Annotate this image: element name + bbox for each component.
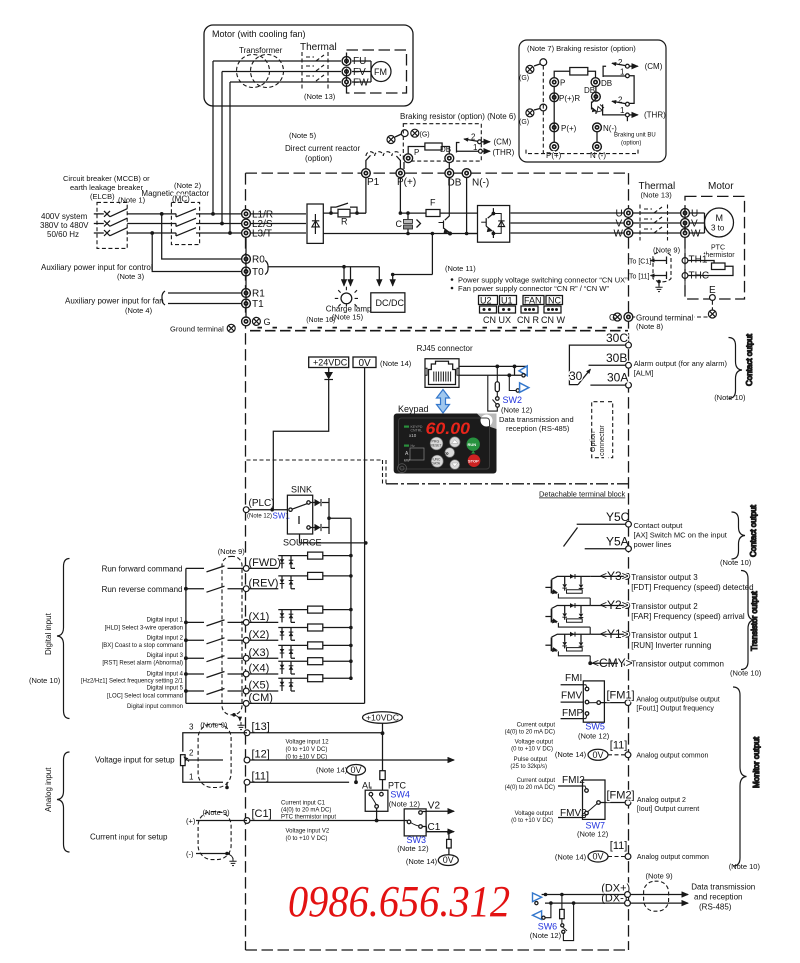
- svg-text:Analog output 2: Analog output 2: [637, 797, 686, 804]
- svg-text:CNTRL: CNTRL: [411, 429, 423, 433]
- svg-text:FMI2: FMI2: [562, 775, 585, 786]
- svg-text:[FDT] Frequency (speed) detect: [FDT] Frequency (speed) detected: [631, 583, 753, 592]
- svg-text:50/60 Hz: 50/60 Hz: [47, 230, 79, 239]
- svg-text:(PLC): (PLC): [249, 498, 275, 509]
- svg-text:(Note 13): (Note 13): [304, 92, 336, 101]
- svg-text:3: 3: [189, 723, 194, 732]
- svg-text:(Note 9): (Note 9): [218, 547, 246, 556]
- svg-text:(X4): (X4): [249, 663, 270, 675]
- svg-text:[AX] Switch MC on the input: [AX] Switch MC on the input: [634, 531, 728, 540]
- svg-text:P: P: [560, 79, 565, 88]
- svg-text:2: 2: [618, 96, 623, 105]
- svg-text:FMI: FMI: [565, 673, 582, 684]
- svg-text:Run forward command: Run forward command: [102, 565, 183, 574]
- svg-text:(Note 14): (Note 14): [406, 857, 438, 866]
- svg-text:reception (RS-485): reception (RS-485): [506, 424, 570, 433]
- svg-text:(RS-485): (RS-485): [699, 903, 732, 912]
- svg-text:Digital input 5: Digital input 5: [147, 686, 184, 692]
- svg-text:(Note 12): (Note 12): [530, 931, 562, 940]
- svg-text:Voltage input V2: Voltage input V2: [286, 829, 330, 835]
- svg-text:[12]: [12]: [252, 749, 270, 761]
- svg-text:SW5: SW5: [585, 722, 605, 732]
- svg-text:Digital input 4: Digital input 4: [147, 672, 184, 678]
- svg-text:T1: T1: [252, 299, 264, 310]
- svg-text:Current output: Current output: [517, 778, 556, 784]
- svg-text:Digital input: Digital input: [44, 612, 53, 655]
- svg-text:(ELCB): (ELCB): [90, 192, 115, 201]
- svg-text:Data transmission: Data transmission: [691, 883, 755, 892]
- svg-text:30B: 30B: [606, 351, 627, 365]
- svg-text:connector: connector: [599, 425, 606, 456]
- svg-text:(+): (+): [186, 817, 196, 826]
- svg-text:P(+)R: P(+)R: [559, 94, 580, 103]
- svg-text:R1: R1: [252, 289, 265, 300]
- svg-text:P1: P1: [367, 177, 380, 188]
- svg-text:PTC: PTC: [711, 245, 725, 252]
- svg-text:DB: DB: [601, 79, 612, 88]
- svg-text:R: R: [341, 217, 348, 227]
- svg-text:[RUN] Inverter running: [RUN] Inverter running: [631, 641, 711, 650]
- svg-text:[13]: [13]: [252, 721, 270, 733]
- svg-text:FM: FM: [374, 67, 387, 77]
- svg-text:RUN: RUN: [468, 442, 477, 447]
- svg-text:Voltage output: Voltage output: [515, 811, 554, 817]
- svg-text:(0 to +10 V DC): (0 to +10 V DC): [286, 747, 328, 753]
- svg-text:(REV): (REV): [249, 577, 279, 589]
- svg-text:DATA: DATA: [432, 462, 441, 466]
- svg-text:M: M: [716, 213, 724, 223]
- svg-text:(-): (-): [186, 850, 194, 859]
- svg-text:(G): (G): [519, 75, 529, 82]
- svg-text:Auxiliary power input for cont: Auxiliary power input for control: [41, 263, 153, 272]
- svg-text:2: 2: [471, 133, 476, 142]
- svg-text:0986.656.312: 0986.656.312: [288, 877, 510, 926]
- svg-text:Thermal: Thermal: [300, 42, 337, 53]
- svg-text:0V: 0V: [593, 852, 604, 862]
- svg-text:(Note 2): (Note 2): [174, 181, 202, 190]
- svg-text:Transistor output 3: Transistor output 3: [631, 573, 698, 582]
- svg-text:thermistor: thermistor: [704, 252, 736, 259]
- svg-text:Current output: Current output: [517, 723, 556, 729]
- svg-text:Detachable terminal block: Detachable terminal block: [539, 490, 626, 499]
- svg-text:1: 1: [473, 143, 478, 152]
- svg-text:30A: 30A: [607, 371, 628, 385]
- svg-text:(X3): (X3): [249, 647, 270, 659]
- svg-text:0V: 0V: [351, 765, 362, 775]
- svg-text:To [C1]: To [C1]: [629, 259, 651, 266]
- svg-text:(Note 14): (Note 14): [555, 750, 587, 759]
- svg-text:Analog output common: Analog output common: [637, 854, 709, 861]
- svg-text:(Note 15): (Note 15): [332, 313, 364, 322]
- svg-text:(X5): (X5): [249, 680, 270, 692]
- svg-text:Current input C1: Current input C1: [281, 801, 326, 807]
- svg-text:[HLD] Select 3-wire operation: [HLD] Select 3-wire operation: [105, 625, 183, 631]
- svg-text:U1: U1: [501, 296, 513, 306]
- svg-text:Circuit breaker (MCCB) or: Circuit breaker (MCCB) or: [63, 174, 150, 183]
- svg-text:Y5C: Y5C: [606, 510, 630, 524]
- svg-text:380V to 480V: 380V to 480V: [40, 221, 89, 230]
- svg-text:(Note 10): (Note 10): [729, 862, 761, 871]
- svg-text:W: W: [614, 229, 624, 240]
- svg-text:kW: kW: [404, 458, 410, 463]
- svg-text:earth leakage breaker: earth leakage breaker: [70, 183, 143, 192]
- svg-text:(Note 12): (Note 12): [397, 844, 429, 853]
- svg-text:DC/DC: DC/DC: [376, 298, 405, 308]
- svg-text:+10VDC: +10VDC: [366, 713, 399, 722]
- svg-text:Data transmission and: Data transmission and: [499, 415, 574, 424]
- svg-text:(THR): (THR): [644, 111, 666, 120]
- svg-text:Transistor output 2: Transistor output 2: [631, 602, 698, 611]
- svg-text:[C1]: [C1]: [252, 808, 272, 820]
- svg-text:(4(0) to 20 mA DC): (4(0) to 20 mA DC): [281, 808, 331, 814]
- svg-text:(X2): (X2): [249, 629, 270, 641]
- svg-text:(Note 12): (Note 12): [501, 406, 533, 415]
- svg-text:(Note 7) Braking resistor (op: (Note 7) Braking resistor (option): [527, 44, 636, 53]
- svg-text:Transistor output common: Transistor output common: [631, 660, 724, 669]
- svg-text:V2: V2: [428, 801, 441, 812]
- svg-text:Voltage input 12: Voltage input 12: [286, 740, 330, 746]
- svg-text:P: P: [414, 148, 419, 157]
- svg-text:Motor (with cooling fan): Motor (with cooling fan): [212, 29, 306, 39]
- svg-text:Pulse output: Pulse output: [514, 757, 548, 763]
- svg-text:[11]: [11]: [610, 740, 628, 752]
- svg-text:Transistor output 1: Transistor output 1: [631, 631, 698, 640]
- svg-text:CN R: CN R: [517, 315, 539, 325]
- svg-text:(Note 10): (Note 10): [720, 558, 752, 567]
- svg-text:Transformer: Transformer: [239, 46, 283, 55]
- svg-text:SW4: SW4: [390, 790, 410, 800]
- svg-text:(Note 9): (Note 9): [200, 721, 228, 730]
- svg-text:(Note 13): (Note 13): [641, 191, 673, 200]
- svg-text:(Note 8): (Note 8): [636, 322, 664, 331]
- svg-text:Contact output: Contact output: [745, 333, 754, 386]
- svg-text:G: G: [264, 317, 271, 327]
- svg-text:[RST] Reset alarm (Abnormal): [RST] Reset alarm (Abnormal): [102, 661, 183, 667]
- svg-text:Transistor output: Transistor output: [750, 590, 759, 651]
- svg-text:Analog input: Analog input: [44, 767, 53, 812]
- svg-text:Digital input 3: Digital input 3: [147, 653, 184, 659]
- svg-text:[FM2]: [FM2]: [607, 790, 635, 802]
- svg-text:Ground terminal: Ground terminal: [636, 313, 694, 322]
- svg-text:60.00: 60.00: [426, 420, 471, 438]
- svg-text:Motor: Motor: [708, 181, 734, 192]
- svg-text:(THR): (THR): [493, 148, 515, 157]
- svg-text:Current input for setup: Current input for setup: [90, 833, 168, 842]
- svg-text:0V: 0V: [443, 855, 454, 865]
- svg-text:FW: FW: [353, 78, 369, 89]
- svg-text:AI: AI: [362, 781, 371, 791]
- svg-text:and reception: and reception: [694, 893, 742, 902]
- svg-text:Y5A: Y5A: [606, 535, 629, 549]
- svg-text:(Note 12): (Note 12): [578, 732, 610, 741]
- svg-text:0V: 0V: [359, 358, 372, 369]
- svg-text:1: 1: [620, 106, 625, 115]
- svg-text:N (-): N (-): [590, 151, 606, 160]
- svg-text:(Note 5): (Note 5): [289, 131, 317, 140]
- svg-text:30: 30: [569, 369, 583, 383]
- svg-text:Braking resistor (option) (Not: Braking resistor (option) (Note 6): [400, 112, 516, 121]
- svg-text:0V: 0V: [593, 750, 604, 760]
- svg-text:(Note 14): (Note 14): [555, 853, 587, 862]
- svg-text:1: 1: [620, 68, 625, 77]
- svg-text:(G): (G): [420, 132, 430, 139]
- svg-text:(CM): (CM): [249, 692, 273, 704]
- svg-text:3 to: 3 to: [711, 224, 725, 233]
- svg-text:Voltage input for setup: Voltage input for setup: [95, 756, 175, 765]
- svg-text:RESET: RESET: [431, 444, 442, 448]
- svg-text:(0 to ±10 V DC): (0 to ±10 V DC): [286, 755, 328, 761]
- svg-text:(CM): (CM): [645, 62, 663, 71]
- svg-text:N(-): N(-): [472, 178, 489, 189]
- svg-text:(Note 12): (Note 12): [577, 830, 609, 839]
- svg-text:2: 2: [189, 749, 194, 758]
- svg-text:(Note 11): (Note 11): [445, 264, 476, 273]
- svg-text:(Note 10): (Note 10): [714, 393, 746, 402]
- svg-text:Digital input 1: Digital input 1: [147, 618, 184, 624]
- svg-text:(Note 10): (Note 10): [29, 676, 61, 685]
- svg-text:STOP: STOP: [468, 459, 479, 464]
- svg-text:x10: x10: [409, 433, 417, 438]
- svg-text:Digital input common: Digital input common: [127, 704, 183, 710]
- svg-text:P(+): P(+): [561, 124, 577, 133]
- svg-text:CN UX: CN UX: [483, 315, 511, 325]
- svg-text:[Fout1] Output frequency: [Fout1] Output frequency: [636, 706, 714, 713]
- svg-text:Alarm output (for any alarm): Alarm output (for any alarm): [634, 359, 728, 368]
- svg-text:Braking unit BU: Braking unit BU: [614, 133, 656, 139]
- svg-text:Hz: Hz: [411, 444, 416, 448]
- svg-text:Direct current reactor: Direct current reactor: [285, 144, 360, 153]
- svg-text:Contact output: Contact output: [749, 504, 758, 557]
- svg-text:P(+): P(+): [546, 151, 562, 160]
- svg-text:(G): (G): [519, 119, 529, 126]
- svg-text:To [11]: To [11]: [629, 274, 650, 281]
- svg-text:SW2: SW2: [503, 395, 523, 405]
- svg-text:C1: C1: [428, 822, 441, 833]
- svg-text:(option): (option): [305, 154, 332, 163]
- svg-text:FV: FV: [353, 67, 366, 78]
- svg-text:(CM): (CM): [494, 138, 512, 147]
- svg-text:+24VDC: +24VDC: [313, 358, 348, 368]
- svg-text:[FAR] Frequency (speed) arriva: [FAR] Frequency (speed) arrival: [631, 612, 745, 621]
- svg-text:FAN: FAN: [524, 296, 542, 306]
- svg-text:[11]: [11]: [610, 840, 628, 852]
- svg-text:(Note 14): (Note 14): [380, 359, 412, 368]
- svg-text:[FM1]: [FM1]: [607, 689, 635, 701]
- svg-text:Analog output/pulse output: Analog output/pulse output: [636, 697, 719, 704]
- svg-text:(option): (option): [621, 141, 641, 147]
- svg-text:C: C: [396, 219, 403, 229]
- svg-text:[BX] Coast to a stop command: [BX] Coast to a stop command: [102, 643, 183, 649]
- svg-text:Contact output: Contact output: [634, 521, 684, 530]
- svg-text:U2: U2: [480, 296, 492, 306]
- svg-text:Monitor output: Monitor output: [752, 736, 761, 788]
- svg-text:(25 to 32kp/s): (25 to 32kp/s): [510, 764, 547, 770]
- svg-text:W: W: [691, 229, 701, 240]
- svg-text:(0 to +10 V DC): (0 to +10 V DC): [511, 747, 553, 753]
- svg-text:G: G: [609, 313, 616, 323]
- svg-text:RJ45 connector: RJ45 connector: [417, 344, 473, 353]
- svg-text:2: 2: [618, 58, 623, 67]
- svg-text:DB: DB: [584, 86, 595, 95]
- svg-text:[11]: [11]: [252, 771, 270, 783]
- svg-text:(Note 14): (Note 14): [316, 766, 348, 775]
- svg-text:[Hz2/Hz1] Select frequency set: [Hz2/Hz1] Select frequency setting 2/1: [81, 679, 184, 685]
- svg-text:Ground terminal: Ground terminal: [170, 325, 224, 334]
- svg-text:(X1): (X1): [249, 611, 270, 623]
- svg-text:Voltage output: Voltage output: [515, 740, 554, 746]
- svg-text:(Note 3): (Note 3): [117, 272, 145, 281]
- svg-text:(Note 12): (Note 12): [247, 514, 272, 520]
- svg-text:[ALM]: [ALM]: [634, 369, 654, 378]
- svg-text:Run reverse command: Run reverse command: [102, 585, 183, 594]
- svg-text:(Note 10): (Note 10): [730, 669, 762, 678]
- svg-text:[Iout] Output current: [Iout] Output current: [637, 806, 699, 813]
- svg-text:(Note 9): (Note 9): [646, 872, 674, 881]
- svg-text:[LOC] Select local command: [LOC] Select local command: [107, 693, 183, 699]
- svg-text:NC: NC: [548, 296, 561, 306]
- svg-text:(0 to +10 V DC): (0 to +10 V DC): [286, 836, 328, 842]
- svg-text:400V system: 400V system: [41, 212, 88, 221]
- svg-text:(Note 12): (Note 12): [389, 800, 421, 809]
- svg-text:T0: T0: [252, 267, 264, 278]
- svg-text:(Note 4): (Note 4): [125, 306, 153, 315]
- svg-text:L3/T: L3/T: [252, 229, 272, 240]
- svg-text:(0 to +10 V DC): (0 to +10 V DC): [511, 818, 553, 824]
- svg-text:power lines: power lines: [634, 540, 672, 549]
- svg-text:FMV: FMV: [561, 691, 582, 702]
- svg-text:Analog output common: Analog output common: [636, 753, 708, 760]
- svg-text:Fan power supply connector “CN: Fan power supply connector “CN R” / “CN …: [458, 284, 609, 293]
- svg-text:SW6: SW6: [538, 922, 558, 932]
- svg-text:1: 1: [189, 773, 194, 782]
- svg-text:(FWD): (FWD): [249, 557, 281, 569]
- svg-text:PTC thermistor input: PTC thermistor input: [281, 815, 336, 821]
- svg-text:Option: Option: [590, 431, 597, 452]
- svg-text:»: »: [445, 451, 449, 458]
- svg-text:30C: 30C: [606, 331, 628, 345]
- svg-text:(4(0) to 20 mA DC): (4(0) to 20 mA DC): [505, 785, 555, 791]
- svg-text:F: F: [430, 198, 436, 208]
- svg-text:(4(0) to 20 mA DC): (4(0) to 20 mA DC): [505, 730, 555, 736]
- svg-text:CN W: CN W: [541, 315, 565, 325]
- svg-text:SINK: SINK: [291, 485, 312, 495]
- svg-text:E: E: [709, 285, 716, 296]
- svg-text:R0: R0: [252, 255, 265, 266]
- svg-text:Auxiliary power input for fan: Auxiliary power input for fan: [65, 297, 164, 306]
- svg-text:Keypad: Keypad: [398, 404, 429, 414]
- svg-text:FMP: FMP: [562, 708, 583, 719]
- svg-text:Digital input 2: Digital input 2: [147, 635, 184, 641]
